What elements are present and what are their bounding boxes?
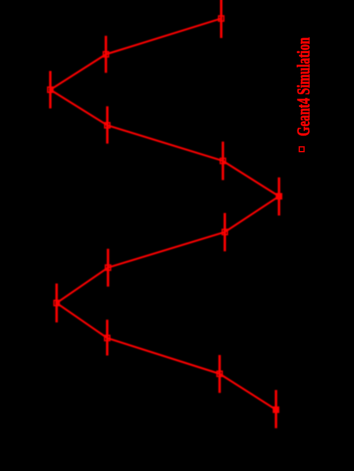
error bar P5 <box>222 142 224 181</box>
error bar P2 <box>105 36 107 73</box>
error bar P4 <box>106 106 108 143</box>
marker P3 <box>48 87 53 92</box>
marker P12 <box>273 407 278 412</box>
legend marker <box>299 147 304 152</box>
marker P4 <box>105 123 110 128</box>
marker P7 <box>222 229 227 234</box>
error bar P10 <box>106 320 108 356</box>
error bar P7 <box>224 213 226 251</box>
marker P9 <box>54 300 59 305</box>
error bar P8 <box>107 249 109 287</box>
error bar P6 <box>278 177 280 215</box>
marker P2 <box>103 52 108 57</box>
marker P1 <box>219 16 224 21</box>
marker P6 <box>276 194 281 199</box>
error bar P3 <box>49 71 51 108</box>
marker P5 <box>220 158 225 163</box>
data polyline <box>50 19 279 410</box>
svg-text:Geant4 Simulation: Geant4 Simulation <box>294 37 314 136</box>
error bar P11 <box>218 355 220 393</box>
marker P11 <box>217 371 222 376</box>
marker P10 <box>105 335 110 340</box>
error bar P1 <box>220 0 222 38</box>
marker P8 <box>105 265 110 270</box>
error bar P12 <box>275 390 277 428</box>
error bar P9 <box>55 284 57 323</box>
